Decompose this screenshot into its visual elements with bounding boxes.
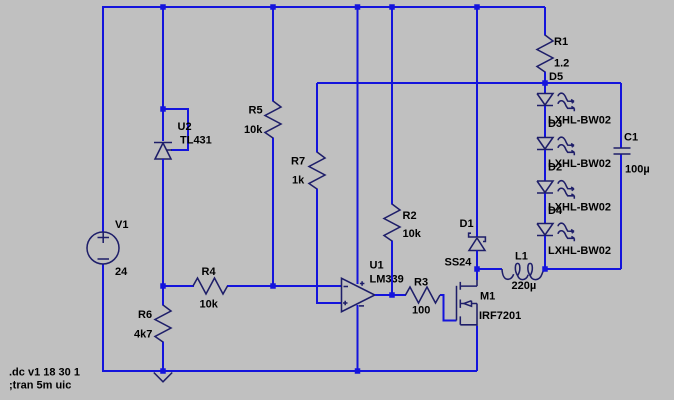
wire U2 column from top bus [162,7,164,141]
node junction x163 y286 [160,283,166,289]
svg-text:R5: R5 [249,105,263,117]
svg-text:24: 24 [115,266,128,278]
svg-text:IRF7201: IRF7201 [479,310,521,322]
wire M1 source down [476,326,478,371]
svg-text:SS24: SS24 [445,257,473,269]
wire op-amp output [375,294,406,296]
wire M1 drain up to node [476,268,478,280]
wire right rail [620,83,622,269]
svg-text:D4: D4 [548,205,563,217]
svg-text:R7: R7 [291,156,305,168]
wire top bus [103,6,545,8]
wire inverting input row y286 [163,285,342,287]
svg-text:1.2: 1.2 [554,58,569,70]
node D5 label [549,71,563,83]
wire R3 to gate [440,295,457,321]
resistor R7 [291,83,342,303]
led D4 bottom label [548,245,611,257]
svg-text:220µ: 220µ [512,280,537,292]
resistor R3 [406,277,441,317]
svg-text:LM339: LM339 [370,274,404,286]
svg-text:M1: M1 [480,291,495,303]
node E junction top bus x477 [474,4,480,10]
svg-text:D3: D3 [548,118,562,130]
svg-text:D2: D2 [548,162,562,174]
svg-text:C1: C1 [624,132,638,144]
svg-text:4k7: 4k7 [134,329,152,341]
ground [154,373,172,382]
node ground junction x163 y371 [160,368,166,374]
svg-text:R3: R3 [414,277,428,289]
node U2 ref junction [160,106,166,112]
wire op-amp V+ column [357,7,359,284]
led D3 [537,137,574,155]
svg-text:100µ: 100µ [625,164,650,176]
svg-text:10k: 10k [244,124,263,136]
wire led link 1 [544,106,546,138]
wire R1 from top bus corner [544,7,546,83]
wire D1 column from top bus [476,7,478,237]
svg-text:R6: R6 [138,309,152,321]
resistor R5 [244,7,281,287]
schottky diode D1 SS24 [445,218,486,269]
svg-text:;tran 5m uic: ;tran 5m uic [9,380,71,392]
resistor R4 [193,266,228,311]
inductor L1 [502,251,545,293]
wire V1 bottom to ground bus [103,264,477,371]
svg-text:R2: R2 [403,210,417,222]
node junction x545 y269 [542,266,548,272]
capacitor C1 [614,132,650,176]
svg-text:10k: 10k [200,299,219,311]
node C junction top bus x357 [355,4,361,10]
wire node row to right rail [545,268,621,270]
node D5 junction x545 y83 [542,80,548,86]
svg-text:R4: R4 [202,266,217,278]
svg-text:R1: R1 [554,36,568,48]
wire U2 ref feedback loop [163,109,188,150]
wire left rail to V1 [102,6,104,232]
spice directive ;tran [9,380,71,392]
wire U2 anode down to node [162,159,164,287]
led D3 labels [548,115,611,131]
wire led link 4 [544,236,546,269]
svg-text:.dc v1 18 30 1: .dc v1 18 30 1 [9,367,80,379]
svg-text:10k: 10k [403,228,422,240]
svg-text:U1: U1 [370,260,384,272]
svg-text:U2: U2 [178,121,192,133]
svg-text:1k: 1k [292,175,305,187]
led D2 [537,181,574,199]
wire op-amp V- to ground bus [357,305,359,371]
wire D1 anode to node row [476,251,478,271]
resistor R2 [384,7,422,295]
spice directive .dc [9,367,80,379]
svg-text:D1: D1 [460,218,474,230]
svg-text:TL431: TL431 [180,135,212,147]
led D4 labels [548,202,611,218]
led D2 labels [548,158,611,174]
wire led link 3 [544,194,546,225]
node junction x357 y371 [355,368,361,374]
wire led link 2 [544,150,546,182]
node junction x273 y286 [270,283,276,289]
wire second bus y83 [317,82,621,84]
led D5 [537,83,574,111]
svg-text:D5: D5 [549,71,563,83]
resistor R6 [134,286,171,371]
node B junction top bus x273 [270,4,276,10]
shunt regulator U2 TL431 [154,121,212,159]
led D4 [537,223,574,241]
voltage source V1 [87,219,128,278]
wire node row to L1 [477,268,502,270]
op-amp U1 LM339 [342,260,404,312]
svg-text:100: 100 [412,305,430,317]
node junction x477 y269 [474,266,480,272]
svg-text:L1: L1 [515,251,528,263]
resistor R1 [537,35,569,72]
nmos transistor M1 IRF7201 [457,279,522,327]
node A junction top bus x163 [160,4,166,10]
svg-text:LXHL-BW02: LXHL-BW02 [548,245,611,257]
svg-text:V1: V1 [115,219,128,231]
node D junction top bus x392 [389,4,395,10]
node junction x392 y295 [389,292,395,298]
